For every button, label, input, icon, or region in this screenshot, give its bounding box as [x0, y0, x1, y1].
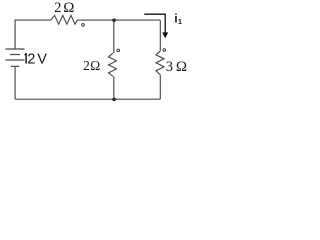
wire: middle branch lower (R2 down to node b)	[113, 76, 115, 99]
node marker circle at top of R2	[117, 49, 120, 52]
node b junction dot on bottom wire	[112, 97, 116, 101]
wire: bottom rail left segment to node b	[15, 98, 114, 100]
resistor R1 2Ω horizontal zigzag	[51, 15, 78, 24]
wire: right branch lower (R3 down to bottom-right corner)	[159, 75, 161, 99]
svg-text:V: V	[37, 52, 47, 68]
svg-text:3: 3	[166, 59, 173, 75]
svg-text:2: 2	[83, 58, 90, 73]
resistor R3 3Ω vertical zigzag	[156, 51, 164, 75]
label battery value 12 V	[25, 52, 48, 68]
svg-text:Ω: Ω	[90, 58, 100, 73]
wire: right branch upper (top-right corner down to R3)	[159, 20, 161, 51]
wire: bottom rail right segment from node b to bottom-right corner	[114, 98, 161, 100]
wire: top middle segment from R1 to node a	[77, 19, 113, 21]
current arrow i1 (bent, pointing down)	[144, 14, 168, 38]
svg-text:Ω: Ω	[176, 59, 187, 75]
wire: middle branch upper (node a down to R2)	[113, 20, 115, 53]
wire: top right segment from node a to top-right corner	[114, 19, 161, 21]
resistor R2 2Ω vertical zigzag	[109, 53, 117, 76]
node a junction dot on top wire	[112, 18, 116, 22]
svg-text:Ω: Ω	[63, 0, 74, 16]
battery V1 plates (long-short-long-short)	[6, 49, 25, 66]
node marker circle at top of R3	[163, 49, 166, 52]
svg-text:2: 2	[54, 0, 61, 16]
svg-text:i1: i1	[174, 13, 182, 26]
wire: left branch top (battery + terminal up to top-left corner, across to R1)	[15, 20, 51, 49]
svg-text:2: 2	[27, 52, 35, 68]
wire: left branch bottom (battery - terminal down to bottom-left corner)	[14, 66, 16, 99]
node marker circle after R1	[82, 24, 85, 27]
